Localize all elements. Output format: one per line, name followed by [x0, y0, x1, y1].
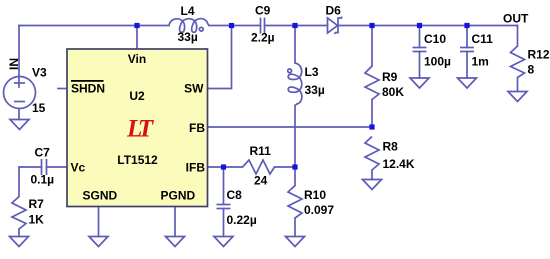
svg-text:C8: C8	[227, 188, 243, 202]
node C10 junction	[417, 23, 422, 28]
wire SHDN stub	[58, 88, 67, 90]
svg-text:C7: C7	[35, 146, 51, 160]
svg-text:0.097: 0.097	[304, 203, 334, 217]
ground (C11)	[458, 78, 477, 88]
wire FB row	[208, 126, 373, 128]
svg-text:R8: R8	[383, 140, 399, 154]
svg-text:V3: V3	[32, 66, 47, 80]
svg-text:80K: 80K	[382, 85, 404, 99]
resistor R11	[243, 160, 275, 174]
wire C10 top lead	[419, 26, 421, 48]
wire C8 bottom lead	[223, 209, 225, 237]
wire V3 top lead	[18, 26, 20, 88]
capacitor C11	[460, 47, 474, 49]
wire R7 bottom lead	[18, 229, 20, 237]
ground (C10)	[410, 78, 429, 88]
node SW junction	[229, 23, 234, 28]
svg-text:D6: D6	[326, 4, 342, 18]
capacitor C7	[41, 159, 43, 175]
svg-text:Vin: Vin	[128, 52, 146, 66]
diode D6	[328, 18, 338, 33]
svg-text:SHDN: SHDN	[71, 82, 105, 96]
ground (PGND)	[166, 237, 185, 247]
svg-text:15: 15	[32, 101, 46, 115]
svg-text:12.4K: 12.4K	[383, 157, 415, 171]
node L3 top junction	[292, 23, 297, 28]
node C11 junction	[464, 23, 469, 28]
wire C10 bottom lead	[419, 52, 421, 79]
ground (C8)	[214, 237, 233, 247]
wire SW pin	[208, 26, 232, 89]
wire L3 bottom to IFB row	[294, 106, 296, 168]
wire PGND drop	[174, 207, 176, 237]
wire C11 top lead	[466, 26, 468, 48]
svg-text:R9: R9	[382, 70, 398, 84]
svg-text:LT1512: LT1512	[117, 153, 158, 167]
svg-text:0.1µ: 0.1µ	[31, 173, 55, 187]
svg-text:R7: R7	[29, 197, 45, 211]
svg-text:C11: C11	[472, 32, 494, 46]
resistor R8	[365, 137, 379, 171]
wire R10 top lead	[294, 167, 296, 186]
capacitor C8	[217, 204, 231, 206]
resistor R7	[12, 197, 26, 230]
wire IFB row left	[208, 166, 243, 168]
node R11-L3 junction	[292, 164, 297, 169]
wire C11 bottom lead	[466, 52, 468, 79]
svg-text:0.22µ: 0.22µ	[227, 213, 257, 227]
svg-text:R12: R12	[528, 48, 550, 62]
svg-text:1K: 1K	[29, 213, 45, 227]
capacitor C9	[260, 18, 262, 34]
svg-text:8: 8	[528, 63, 535, 77]
ground (R12)	[508, 92, 527, 102]
wire Vc to C7	[47, 166, 68, 168]
wire V3 bottom lead	[18, 109, 20, 120]
svg-text:C10: C10	[424, 32, 446, 46]
svg-text:33µ: 33µ	[178, 30, 198, 44]
node FB junction	[369, 124, 374, 129]
voltage source V3	[4, 77, 36, 109]
svg-text:L4: L4	[181, 4, 195, 18]
node Vin junction	[134, 23, 139, 28]
wire top bus D6-to-R12 corner	[338, 25, 518, 27]
svg-text:IN: IN	[7, 58, 21, 70]
svg-text:24: 24	[254, 174, 268, 188]
svg-text:Vc: Vc	[71, 161, 86, 175]
svg-text:1m: 1m	[472, 55, 489, 69]
op-amp U2 LT1512 IC body	[67, 49, 208, 207]
svg-text:IFB: IFB	[186, 161, 206, 175]
LT logo	[126, 116, 155, 143]
svg-text:L3: L3	[305, 65, 319, 79]
wire L3 top lead	[294, 26, 296, 64]
ground (R8)	[363, 180, 382, 190]
resistor R9	[365, 66, 379, 100]
wire R9 top lead	[371, 26, 373, 67]
resistor R10	[288, 186, 302, 219]
svg-text:SW: SW	[184, 82, 204, 96]
ground (SGND)	[89, 237, 108, 247]
wire R8 bottom lead	[371, 170, 373, 180]
svg-text:OUT: OUT	[503, 12, 529, 26]
svg-text:U2: U2	[129, 89, 145, 103]
svg-text:R10: R10	[304, 188, 326, 202]
inductor L3	[288, 63, 302, 106]
svg-text:33µ: 33µ	[305, 83, 325, 97]
wire Vin drop	[136, 26, 138, 50]
svg-text:C9: C9	[255, 4, 271, 18]
ground (R10)	[286, 237, 305, 247]
wire top bus left segment	[19, 25, 169, 27]
wire R9 bottom lead	[371, 100, 373, 128]
wire SGND drop	[98, 207, 100, 237]
wire top bus C9-to-D6	[265, 25, 328, 27]
wire C8 top lead	[223, 167, 225, 205]
node C8 junction	[221, 164, 226, 169]
svg-text:R11: R11	[250, 144, 272, 158]
inductor L4	[169, 19, 209, 33]
capacitor C10	[413, 47, 427, 49]
wire C7 to R7 corner	[19, 167, 42, 197]
svg-text:SGND: SGND	[83, 189, 118, 203]
ground (R7)	[10, 237, 29, 247]
svg-text:100µ: 100µ	[424, 55, 451, 69]
svg-text:2.2µ: 2.2µ	[251, 31, 275, 45]
resistor R12	[511, 46, 525, 78]
svg-text:PGND: PGND	[161, 189, 196, 203]
pin SHDN overline	[71, 80, 104, 82]
ground (V3)	[10, 120, 29, 130]
wire R10 bottom lead	[294, 218, 296, 237]
wire IFB row right of R11	[275, 166, 296, 168]
wire R12 bottom lead	[517, 78, 519, 92]
node R9 top junction	[369, 23, 374, 28]
wire R12 top lead	[517, 26, 519, 47]
wire top bus L4-to-C9	[209, 25, 261, 27]
svg-text:FB: FB	[189, 121, 205, 135]
